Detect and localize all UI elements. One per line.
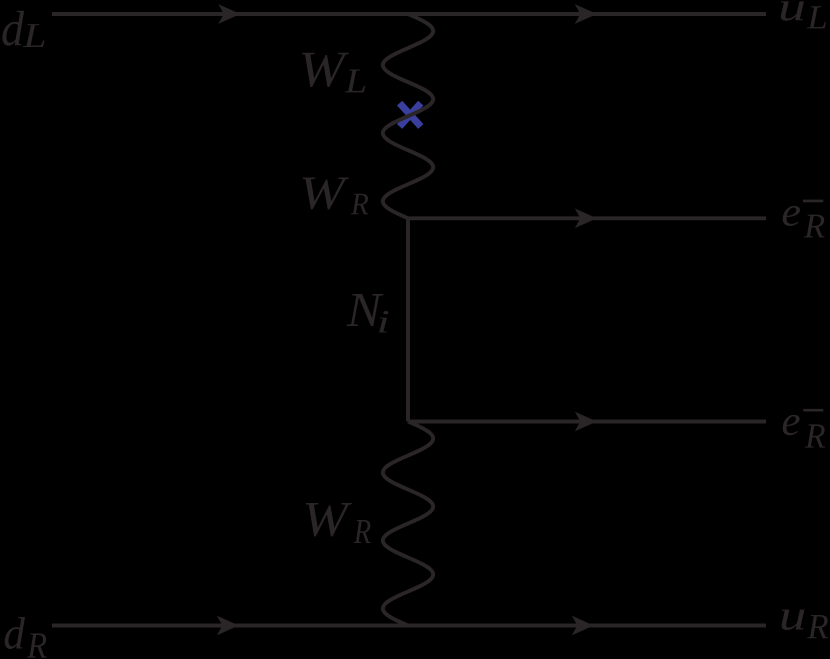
wire: outgoing e_R electron line (upper) [408, 216, 766, 220]
arrow on u_R line [572, 616, 594, 636]
arrow on lower e_R line [575, 412, 597, 432]
label W_L [302, 53, 365, 93]
wire: incoming d_L fermion line (top) [52, 12, 766, 16]
arrow on upper e_R line [575, 208, 597, 228]
label e_R^- (lower) [783, 409, 825, 448]
arrow on u_L line [575, 4, 597, 24]
boson: W_R wavy propagator (bottom) [383, 422, 433, 626]
label N_i [347, 294, 389, 332]
arrow on d_L line [218, 4, 240, 24]
wire: incoming d_R fermion line (bottom) [52, 624, 766, 628]
mass-insertion cross (blue X) on W propagator [400, 103, 421, 126]
label d_R [5, 617, 47, 658]
label W_R (lower) [306, 503, 371, 543]
wire: outgoing e_R electron line (lower) [408, 420, 766, 424]
arrow on d_R line [217, 616, 239, 636]
boson: W_L / W_R wavy propagator (top, with mass insertion) [383, 14, 433, 218]
label u_L [781, 1, 826, 28]
label u_R [782, 610, 828, 639]
wire: N_i Majorana neutrino propagator (vertical) [406, 218, 410, 421]
label e_R^- (upper) [783, 200, 825, 238]
label W_R (upper) [303, 178, 369, 215]
label d_L [2, 11, 44, 47]
